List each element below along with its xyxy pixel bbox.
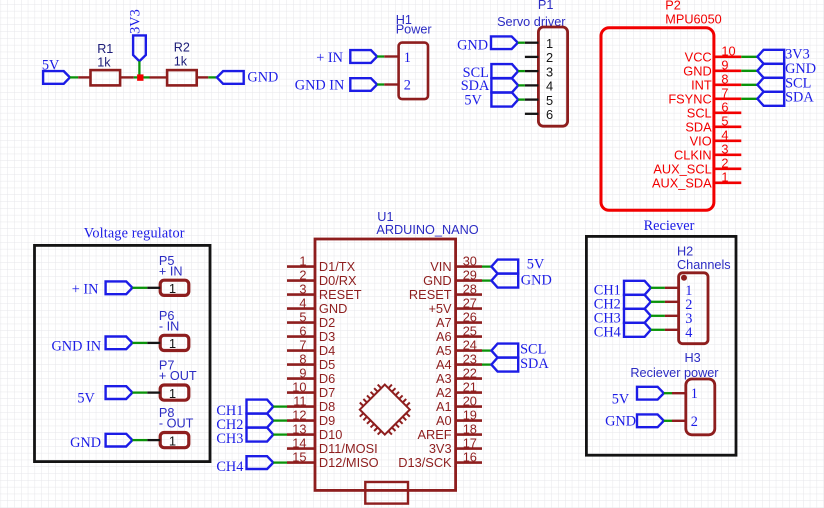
flag GND (P2) bbox=[757, 64, 784, 78]
svg-text:1: 1 bbox=[299, 253, 306, 268]
svg-text:18: 18 bbox=[463, 421, 477, 436]
svg-text:Channels: Channels bbox=[677, 258, 731, 272]
flag CH1 (H2) bbox=[624, 281, 651, 295]
svg-text:ARDUINO_NANO: ARDUINO_NANO bbox=[376, 223, 478, 237]
svg-text:27: 27 bbox=[463, 295, 477, 310]
svg-text:10: 10 bbox=[292, 379, 306, 394]
svg-text:D5: D5 bbox=[319, 357, 335, 372]
wire H1 pin2 stub bbox=[384, 83, 398, 85]
svg-text:5V: 5V bbox=[77, 391, 95, 407]
P1 pin 2 stub bbox=[525, 56, 539, 58]
svg-text:3V3: 3V3 bbox=[429, 441, 452, 456]
U1 pin 27 stub bbox=[456, 307, 482, 310]
wire H3 pin1 stub bbox=[672, 392, 686, 394]
svg-text:SCL: SCL bbox=[687, 106, 712, 121]
svg-text:D2: D2 bbox=[319, 315, 335, 330]
U1 pin 18 stub bbox=[456, 433, 482, 436]
flag 5V (U1 right) bbox=[491, 260, 518, 274]
svg-text:25: 25 bbox=[463, 323, 477, 338]
wire H1 pin1 stub bbox=[384, 55, 398, 57]
svg-text:H3: H3 bbox=[685, 351, 701, 365]
P2 pin 8 stub bbox=[714, 84, 741, 87]
svg-text:Voltage regulator: Voltage regulator bbox=[84, 225, 185, 241]
svg-text:2: 2 bbox=[691, 414, 698, 430]
svg-text:GND: GND bbox=[423, 273, 451, 288]
svg-text:D13/SCK: D13/SCK bbox=[398, 455, 452, 470]
flag GND (top) bbox=[217, 71, 244, 84]
wire R2 left pin stub bbox=[150, 76, 168, 78]
svg-text:2: 2 bbox=[721, 156, 728, 171]
connector P1 body bbox=[538, 27, 567, 126]
svg-text:9: 9 bbox=[299, 365, 306, 380]
svg-text:CH3: CH3 bbox=[216, 431, 243, 447]
U1 pin 9 stub bbox=[287, 377, 315, 380]
wire U1 to 5V (net) bbox=[482, 265, 491, 267]
flag 3V3 (P2) bbox=[757, 50, 784, 64]
svg-text:1: 1 bbox=[169, 386, 176, 401]
svg-text:FSYNC: FSYNC bbox=[668, 92, 711, 107]
svg-text:3: 3 bbox=[546, 64, 553, 79]
svg-text:1: 1 bbox=[169, 433, 176, 448]
svg-text:Power: Power bbox=[396, 22, 433, 36]
wire R1 right pin stub bbox=[120, 76, 134, 78]
svg-text:+ IN: + IN bbox=[316, 50, 343, 66]
U1 pin 30 stub bbox=[456, 265, 482, 268]
P2 pin 7 stub bbox=[714, 98, 741, 101]
svg-text:17: 17 bbox=[463, 435, 477, 450]
svg-text:30: 30 bbox=[463, 253, 477, 268]
U1 pin 16 stub bbox=[456, 461, 482, 464]
wire 5V (net) bbox=[132, 391, 147, 393]
wire U1 to SCL (net) bbox=[482, 349, 491, 351]
flag 5V (VR) bbox=[106, 386, 133, 399]
flag GND (U1 right) bbox=[491, 274, 518, 288]
svg-text:A2: A2 bbox=[436, 385, 452, 400]
svg-text:GND: GND bbox=[70, 435, 101, 451]
svg-text:INT: INT bbox=[691, 78, 712, 93]
svg-text:SCL: SCL bbox=[520, 342, 546, 358]
svg-text:CH4: CH4 bbox=[594, 324, 621, 340]
flag 3V3 bbox=[133, 35, 146, 61]
IC U1 ARDUINO_NANO body bbox=[315, 239, 456, 490]
svg-text:28: 28 bbox=[463, 281, 477, 296]
flag SDA (P2) bbox=[757, 92, 784, 106]
P2 pin 1 stub bbox=[714, 182, 741, 185]
pad P5 bbox=[160, 280, 189, 295]
svg-text:+ IN: + IN bbox=[72, 282, 99, 298]
connector H3 body bbox=[686, 379, 715, 435]
P1 pin 5 stub bbox=[525, 98, 539, 100]
U1 pin 6 stub bbox=[287, 335, 315, 338]
svg-text:A5: A5 bbox=[436, 343, 452, 358]
svg-text:D11/MOSI: D11/MOSI bbox=[319, 441, 378, 456]
svg-text:CLKIN: CLKIN bbox=[674, 148, 712, 163]
flag SCL (U1 right) bbox=[491, 344, 518, 358]
svg-text:GND: GND bbox=[683, 64, 711, 79]
resistor R1 bbox=[91, 70, 121, 85]
svg-text:SDA: SDA bbox=[520, 356, 549, 372]
svg-text:1: 1 bbox=[404, 50, 411, 66]
H2 polarity dot bbox=[681, 275, 687, 281]
P2 pin 2 stub bbox=[714, 168, 741, 171]
U1 pin 17 stub bbox=[456, 447, 482, 450]
wire CH2 to U1 (net) bbox=[273, 419, 287, 421]
connector H2 body bbox=[679, 273, 708, 344]
flag 5V bbox=[43, 71, 70, 84]
resistor R2 bbox=[167, 70, 197, 85]
svg-text:A0: A0 bbox=[436, 413, 452, 428]
pad P8 bbox=[160, 433, 189, 448]
svg-text:1k: 1k bbox=[97, 56, 111, 70]
wire GND (H3 net) bbox=[664, 420, 672, 422]
U1 pin 1 stub bbox=[287, 265, 315, 268]
P2 pin 6 stub bbox=[714, 112, 741, 115]
svg-text:SDA: SDA bbox=[785, 89, 814, 105]
wire R2 right pin stub bbox=[197, 76, 209, 78]
wire CH2 (net) bbox=[651, 301, 665, 303]
svg-text:8: 8 bbox=[721, 72, 728, 87]
flag GND (VR) bbox=[106, 434, 133, 447]
svg-text:12: 12 bbox=[292, 407, 306, 422]
svg-text:3V3: 3V3 bbox=[128, 9, 144, 34]
svg-text:Reciever: Reciever bbox=[644, 218, 695, 234]
wire GND IN (net) bbox=[132, 342, 147, 344]
svg-text:6: 6 bbox=[299, 323, 306, 338]
svg-text:2: 2 bbox=[404, 77, 411, 93]
svg-text:6: 6 bbox=[721, 100, 728, 115]
svg-text:21: 21 bbox=[463, 379, 477, 394]
U1 pin 4 stub bbox=[287, 307, 315, 310]
svg-text:13: 13 bbox=[292, 421, 306, 436]
U1 pin 8 stub bbox=[287, 363, 315, 366]
wire H2 pin 2 stub bbox=[665, 301, 679, 303]
flag 5V (P1) bbox=[491, 93, 518, 107]
svg-text:D10: D10 bbox=[319, 427, 342, 442]
U1 crystal rectangle at bottom bbox=[365, 482, 408, 504]
wire to P5 pad bbox=[147, 287, 160, 289]
U1 pin 5 stub bbox=[287, 321, 315, 324]
svg-text:14: 14 bbox=[292, 435, 306, 450]
wire H3 pin2 stub bbox=[672, 420, 686, 422]
U1 pin 22 stub bbox=[456, 377, 482, 380]
U1 pin 26 stub bbox=[456, 321, 482, 324]
flag CH4 (U1) bbox=[247, 456, 274, 469]
svg-text:D8: D8 bbox=[319, 399, 335, 414]
svg-text:CH4: CH4 bbox=[216, 459, 243, 475]
svg-text:23: 23 bbox=[463, 351, 477, 366]
P2 pin 9 stub bbox=[714, 70, 741, 73]
wire + IN (net) bbox=[377, 55, 384, 57]
svg-text:D0/RX: D0/RX bbox=[319, 273, 357, 288]
wire CH4 to U1 (net) bbox=[273, 461, 287, 463]
U1 pin 29 stub bbox=[456, 279, 482, 282]
connector H1 body bbox=[399, 43, 428, 100]
svg-text:VCC: VCC bbox=[685, 50, 712, 65]
svg-text:AREF: AREF bbox=[417, 427, 451, 442]
svg-text:AUX_SDA: AUX_SDA bbox=[652, 176, 712, 191]
wire U1 to GND (net) bbox=[482, 279, 491, 281]
wire + IN (net) bbox=[132, 287, 147, 289]
svg-text:7: 7 bbox=[721, 86, 728, 101]
U1 pin 23 stub bbox=[456, 363, 482, 366]
flag SDA (U1 right) bbox=[491, 358, 518, 372]
svg-text:4: 4 bbox=[685, 325, 692, 341]
wire H2 pin 1 stub bbox=[665, 287, 679, 289]
wire P2 to SDA (net) bbox=[741, 98, 757, 100]
svg-text:GND: GND bbox=[457, 38, 488, 54]
wire R2 to GND (net) bbox=[208, 76, 217, 78]
U1 pin 10 stub bbox=[287, 391, 315, 394]
svg-text:10: 10 bbox=[721, 44, 735, 59]
svg-text:D6: D6 bbox=[319, 371, 335, 386]
svg-text:29: 29 bbox=[463, 267, 477, 282]
svg-text:19: 19 bbox=[463, 407, 477, 422]
flag CH2 (U1) bbox=[247, 414, 274, 428]
flag SCL (P1) bbox=[491, 64, 518, 78]
U1 pin 14 stub bbox=[287, 447, 315, 450]
U1 pin 15 stub bbox=[287, 461, 315, 464]
wire CH1 to U1 (net) bbox=[273, 405, 287, 407]
svg-text:1: 1 bbox=[169, 281, 176, 296]
P2 pin 10 stub bbox=[714, 55, 741, 58]
svg-text:15: 15 bbox=[292, 449, 306, 464]
U1 pin 19 stub bbox=[456, 419, 482, 422]
P2 pin 4 stub bbox=[714, 140, 741, 143]
junction node bbox=[137, 74, 143, 80]
svg-text:5V: 5V bbox=[612, 392, 630, 408]
svg-text:D1/TX: D1/TX bbox=[319, 259, 356, 274]
flag GND IN bbox=[350, 78, 377, 91]
svg-text:R1: R1 bbox=[97, 42, 113, 56]
flag CH3 (U1) bbox=[247, 428, 274, 442]
P2 pin 5 stub bbox=[714, 126, 741, 129]
U1 pin 13 stub bbox=[287, 433, 315, 436]
svg-text:VIO: VIO bbox=[690, 134, 712, 149]
pad P6 bbox=[160, 335, 189, 350]
svg-text:RESET: RESET bbox=[409, 287, 452, 302]
U1 chip glyph (rotated square with pins) bbox=[360, 385, 410, 435]
flag CH2 (H2) bbox=[624, 295, 651, 309]
svg-text:4: 4 bbox=[546, 79, 553, 94]
svg-text:SDA: SDA bbox=[685, 120, 712, 135]
flag SDA (P1) bbox=[491, 78, 518, 92]
wire CH3 (net) bbox=[651, 315, 665, 317]
wire H2 pin 4 stub bbox=[665, 329, 679, 331]
wire SCL to P1.3 (net) bbox=[518, 70, 525, 72]
svg-text:A6: A6 bbox=[436, 329, 452, 344]
svg-text:5V: 5V bbox=[464, 92, 482, 108]
U1 pin 12 stub bbox=[287, 419, 315, 422]
wire 5V (H3 net) bbox=[664, 392, 672, 394]
P2 pin 3 stub bbox=[714, 154, 741, 157]
svg-text:P2: P2 bbox=[665, 0, 681, 13]
wire U1 to SDA (net) bbox=[482, 363, 491, 365]
pad P7 bbox=[160, 385, 189, 400]
svg-text:1: 1 bbox=[546, 36, 553, 51]
U1 pin 24 stub bbox=[456, 349, 482, 352]
svg-text:+ OUT: + OUT bbox=[159, 369, 197, 383]
wire P2 to 3V3 (net) bbox=[741, 56, 757, 58]
svg-text:+ IN: + IN bbox=[159, 264, 183, 278]
U1 pin 25 stub bbox=[456, 335, 482, 338]
flag GND (P1) bbox=[491, 36, 518, 49]
wire to P7 pad bbox=[147, 391, 160, 393]
flag + IN (VR) bbox=[106, 281, 133, 294]
svg-text:D4: D4 bbox=[319, 343, 335, 358]
svg-text:GND: GND bbox=[247, 69, 278, 85]
flag CH3 (H2) bbox=[624, 309, 651, 323]
svg-text:11: 11 bbox=[293, 393, 306, 408]
U1 pin 11 stub bbox=[287, 405, 315, 408]
svg-text:RESET: RESET bbox=[319, 287, 362, 302]
svg-text:GND IN: GND IN bbox=[51, 339, 101, 355]
U1 pin 21 stub bbox=[456, 391, 482, 394]
svg-text:5: 5 bbox=[299, 309, 306, 324]
svg-text:2: 2 bbox=[299, 267, 306, 282]
flag + IN bbox=[350, 50, 377, 63]
wire 3V3 to junction bbox=[138, 61, 140, 76]
svg-text:GND IN: GND IN bbox=[295, 78, 345, 94]
svg-text:AUX_SCL: AUX_SCL bbox=[653, 162, 711, 177]
wire H2 pin 3 stub bbox=[665, 315, 679, 317]
frame Reciever bbox=[586, 236, 736, 455]
svg-text:20: 20 bbox=[463, 393, 477, 408]
wire P2 to SCL (net) bbox=[741, 84, 757, 86]
svg-text:D12/MISO: D12/MISO bbox=[319, 455, 379, 470]
wire CH4 (net) bbox=[651, 329, 665, 331]
svg-text:D3: D3 bbox=[319, 329, 335, 344]
svg-text:- OUT: - OUT bbox=[159, 417, 194, 431]
svg-text:D7: D7 bbox=[319, 385, 335, 400]
svg-text:- IN: - IN bbox=[159, 319, 179, 333]
svg-text:5: 5 bbox=[721, 114, 728, 129]
wire 5V to P1.5 (net) bbox=[518, 98, 525, 100]
svg-text:GND: GND bbox=[605, 414, 636, 430]
svg-text:GND: GND bbox=[319, 301, 347, 316]
svg-text:MPU6050: MPU6050 bbox=[665, 13, 721, 27]
svg-text:A4: A4 bbox=[436, 357, 452, 372]
wire R1 left pin stub bbox=[78, 76, 90, 78]
svg-text:22: 22 bbox=[463, 365, 477, 380]
svg-text:A1: A1 bbox=[436, 399, 452, 414]
flag 5V (H3) bbox=[637, 387, 664, 400]
P1 pin 4 stub bbox=[525, 84, 539, 86]
svg-text:5: 5 bbox=[546, 93, 553, 108]
flag GND IN (VR) bbox=[106, 337, 133, 350]
svg-text:3V3: 3V3 bbox=[785, 47, 810, 63]
svg-text:7: 7 bbox=[299, 337, 306, 352]
U1 pin 20 stub bbox=[456, 405, 482, 408]
frame Voltage regulator bbox=[35, 245, 211, 461]
wire GND (net) bbox=[132, 439, 147, 441]
svg-text:1k: 1k bbox=[174, 55, 188, 69]
wire P2 to GND (net) bbox=[741, 70, 757, 72]
flag CH4 (H2) bbox=[624, 323, 651, 337]
svg-text:P1: P1 bbox=[538, 0, 554, 12]
svg-text:+5V: +5V bbox=[428, 301, 452, 316]
svg-text:A3: A3 bbox=[436, 371, 452, 386]
svg-text:2: 2 bbox=[546, 50, 553, 65]
svg-text:26: 26 bbox=[463, 309, 477, 324]
flag CH1 (U1) bbox=[247, 400, 274, 414]
svg-text:4: 4 bbox=[721, 128, 728, 143]
wire GND IN (net) bbox=[377, 83, 384, 85]
svg-text:H2: H2 bbox=[677, 245, 693, 259]
wire 5V to R1 (net) bbox=[70, 76, 78, 78]
svg-text:24: 24 bbox=[463, 337, 477, 352]
U1 pin 7 stub bbox=[287, 349, 315, 352]
IC P2 MPU6050 body bbox=[601, 28, 714, 211]
svg-text:4: 4 bbox=[299, 295, 306, 310]
svg-text:8: 8 bbox=[299, 351, 306, 366]
svg-text:6: 6 bbox=[546, 107, 553, 122]
wire CH3 to U1 (net) bbox=[273, 433, 287, 435]
svg-text:1: 1 bbox=[721, 170, 728, 185]
wire R1 to R2 (net) bbox=[134, 76, 150, 78]
svg-text:3: 3 bbox=[299, 281, 306, 296]
flag SCL (P2) bbox=[757, 78, 784, 92]
svg-text:D9: D9 bbox=[319, 413, 335, 428]
P1 pin 3 stub bbox=[525, 70, 539, 72]
svg-text:16: 16 bbox=[463, 449, 477, 464]
svg-text:1: 1 bbox=[691, 386, 698, 402]
svg-text:VIN: VIN bbox=[430, 259, 451, 274]
wire GND to P1.1 (net) bbox=[518, 42, 525, 44]
U1 pin 28 stub bbox=[456, 293, 482, 296]
svg-text:1: 1 bbox=[169, 336, 176, 351]
svg-text:R2: R2 bbox=[174, 41, 190, 55]
wire to P6 pad bbox=[147, 342, 160, 344]
svg-text:9: 9 bbox=[721, 58, 728, 73]
P1 pin 1 stub bbox=[525, 42, 539, 44]
U1 pin 3 stub bbox=[287, 293, 315, 296]
wire CH1 (net) bbox=[651, 287, 665, 289]
P1 pin 6 stub bbox=[525, 113, 539, 115]
svg-text:A7: A7 bbox=[436, 315, 452, 330]
svg-text:GND: GND bbox=[521, 273, 552, 289]
wire to P8 pad bbox=[147, 439, 160, 441]
wire SDA to P1.4 (net) bbox=[518, 84, 525, 86]
svg-text:3: 3 bbox=[721, 142, 728, 157]
svg-text:5V: 5V bbox=[527, 257, 545, 273]
U1 pin 2 stub bbox=[287, 279, 315, 282]
flag GND (H3) bbox=[637, 414, 664, 427]
